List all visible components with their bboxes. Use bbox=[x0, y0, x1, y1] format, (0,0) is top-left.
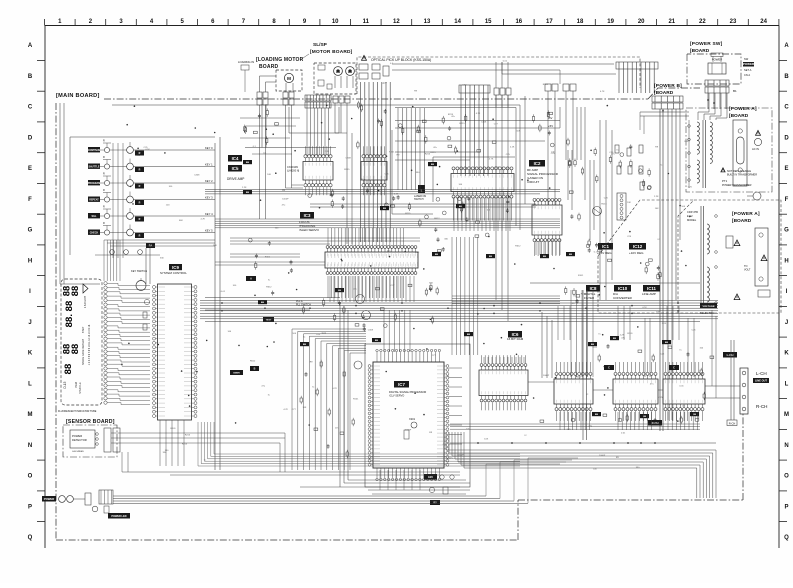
svg-text:R215: R215 bbox=[182, 444, 188, 446]
pickup wire bundle bbox=[361, 82, 391, 242]
svg-text:R-CH: R-CH bbox=[756, 404, 767, 409]
border ruler right bbox=[779, 26, 789, 549]
svg-text:R101: R101 bbox=[578, 275, 584, 277]
svg-text:10K: 10K bbox=[213, 245, 217, 247]
svg-text:R: R bbox=[103, 189, 105, 192]
svg-text:VOLT: VOLT bbox=[744, 269, 751, 272]
svg-text:R612: R612 bbox=[266, 287, 272, 289]
display tube note bbox=[58, 410, 97, 413]
power led label bbox=[108, 513, 130, 519]
svg-text:BB: BB bbox=[303, 344, 307, 346]
svg-text:2.2K: 2.2K bbox=[620, 334, 625, 336]
audio verticals mid bbox=[571, 290, 593, 440]
svg-text:D: D bbox=[28, 135, 33, 141]
IC4 package bbox=[303, 146, 333, 195]
rails -5V +5V bbox=[395, 107, 560, 160]
rf wire bundle bbox=[461, 93, 488, 176]
svg-text:10: 10 bbox=[332, 19, 339, 25]
power sw to transformer wires bbox=[698, 93, 727, 120]
output wires bbox=[528, 310, 740, 398]
sl motor M2 bbox=[334, 67, 343, 88]
svg-text:10K: 10K bbox=[655, 208, 659, 210]
svg-text:BB: BB bbox=[261, 302, 265, 304]
svg-text:BB: BB bbox=[375, 340, 379, 342]
display digits bbox=[61, 284, 92, 394]
laser connector bbox=[616, 62, 658, 69]
svg-text:IC7: IC7 bbox=[398, 382, 405, 387]
svg-text:15: 15 bbox=[485, 19, 492, 25]
svg-text:L-CH: L-CH bbox=[727, 353, 734, 357]
svg-text:SPACE FADE REPEAT: SPACE FADE REPEAT bbox=[82, 339, 85, 365]
svg-text:[BOARD: [BOARD bbox=[729, 113, 749, 119]
svg-text:CONTINUE: CONTINUE bbox=[88, 149, 101, 152]
svg-text:4.7K: 4.7K bbox=[489, 159, 494, 161]
degauss coil bbox=[747, 192, 761, 200]
svg-text:IC2: IC2 bbox=[534, 161, 541, 166]
audio discrete parts bbox=[540, 344, 714, 424]
svg-text:MODEL: MODEL bbox=[687, 218, 697, 222]
svg-text:BB: BB bbox=[383, 208, 387, 210]
svg-text:1000P: 1000P bbox=[457, 455, 464, 457]
svg-text:+10V REG: +10V REG bbox=[629, 251, 644, 255]
svg-text:A: A bbox=[250, 278, 252, 281]
display to mcu wires bbox=[107, 283, 150, 404]
IC7 label bbox=[389, 381, 426, 398]
svg-text:R215: R215 bbox=[405, 213, 411, 215]
svg-text:R215: R215 bbox=[601, 203, 607, 205]
svg-text:IC3: IC3 bbox=[304, 213, 311, 218]
power a board upper label bbox=[729, 106, 757, 119]
svg-text:2.2K: 2.2K bbox=[415, 252, 420, 254]
svg-text:FLUORESCENT INDICATOR TUBE: FLUORESCENT INDICATOR TUBE bbox=[58, 410, 97, 413]
sensor connectors bbox=[104, 428, 285, 472]
svg-text:F: F bbox=[785, 197, 789, 203]
reg resistor stack bbox=[615, 145, 644, 190]
svg-text:PT1: PT1 bbox=[722, 179, 728, 183]
mcu bottom bundle bbox=[160, 420, 184, 466]
key matrix frame bbox=[70, 137, 215, 255]
cn2 long drops bbox=[496, 95, 525, 321]
svg-text:R215: R215 bbox=[430, 152, 436, 154]
reset parts bbox=[143, 299, 150, 330]
svg-text:R: R bbox=[139, 185, 141, 188]
border ruler left bbox=[28, 26, 46, 549]
svg-text:BB: BB bbox=[543, 256, 547, 258]
svg-text:R215: R215 bbox=[459, 123, 465, 125]
svg-text:R: R bbox=[103, 173, 105, 176]
svg-text:4.7K: 4.7K bbox=[332, 388, 337, 390]
wire rails x347 bbox=[347, 133, 352, 244]
svg-text:SL/SP: SL/SP bbox=[313, 42, 328, 48]
dsp left parts bbox=[300, 360, 354, 458]
power a upper dashdot box bbox=[686, 108, 772, 192]
qfp left wire loop bbox=[340, 302, 470, 487]
svg-text:12: 12 bbox=[393, 19, 400, 25]
svg-text:IC9: IC9 bbox=[172, 265, 179, 270]
main digital bus bbox=[200, 303, 718, 313]
reg connector CN bbox=[617, 193, 626, 220]
svg-text:1000P: 1000P bbox=[599, 455, 606, 457]
svg-text:C308: C308 bbox=[194, 174, 200, 176]
power a fuse block bbox=[733, 120, 747, 186]
svg-text:J: J bbox=[28, 320, 31, 326]
power sw board outline bbox=[687, 54, 741, 84]
svg-text:R215: R215 bbox=[344, 169, 350, 171]
svg-text:SHUTTLE: SHUTTLE bbox=[88, 166, 99, 169]
svg-text:2.2K: 2.2K bbox=[394, 194, 399, 196]
power b connector bbox=[652, 96, 683, 109]
ic2 area wire box bbox=[392, 130, 433, 214]
ic8 top drops bbox=[542, 312, 552, 378]
svg-text:R: R bbox=[139, 169, 141, 172]
fluorescent display outline bbox=[61, 279, 102, 405]
sp motor M3 bbox=[346, 67, 355, 88]
bus y283 horizontal bbox=[205, 283, 700, 298]
svg-text:4.7K: 4.7K bbox=[201, 219, 206, 221]
svg-text:POWER: POWER bbox=[743, 62, 755, 66]
loading motor M1 bbox=[284, 73, 293, 92]
svg-text:R612: R612 bbox=[515, 246, 521, 248]
svg-text:SYSTEM CONTROL: SYSTEM CONTROL bbox=[160, 271, 187, 275]
audio bottom bus bbox=[450, 424, 700, 429]
svg-text:SWITCH: SWITCH bbox=[414, 198, 424, 201]
IC2 package bbox=[451, 167, 514, 221]
svg-text:Q: Q bbox=[28, 535, 33, 541]
line out rail pair bbox=[731, 340, 734, 420]
IC9 label bbox=[160, 264, 187, 275]
svg-text:D-15: D-15 bbox=[63, 381, 67, 388]
svg-text:CX20109: CX20109 bbox=[287, 165, 298, 169]
svg-text:PLL SWITCH: PLL SWITCH bbox=[296, 304, 311, 307]
svg-text:R101: R101 bbox=[627, 333, 633, 335]
audio dip bottom drops bbox=[560, 412, 697, 430]
svg-text:10K: 10K bbox=[670, 371, 674, 373]
svg-text:23: 23 bbox=[730, 19, 737, 25]
svg-text:STEP: STEP bbox=[82, 326, 85, 333]
svg-text:[MAIN BOARD]: [MAIN BOARD] bbox=[56, 93, 100, 99]
sl/sp small parts bbox=[318, 65, 332, 89]
svg-text:1000P: 1000P bbox=[282, 199, 289, 201]
power b to transformer horizontals bbox=[640, 112, 689, 134]
ic6 top pads bbox=[484, 357, 524, 363]
svg-text:OPTICAL PICK UP BLOCK (KSS-15: OPTICAL PICK UP BLOCK (KSS-150A) bbox=[371, 58, 431, 62]
power detector bbox=[70, 430, 98, 453]
IC8 package bbox=[554, 362, 593, 421]
main board label bbox=[56, 93, 100, 99]
R-CH label bbox=[756, 404, 767, 409]
svg-text:VOLTAGE: VOLTAGE bbox=[702, 304, 714, 308]
wire rail pair left bbox=[60, 103, 100, 284]
bus y232 to ic3 bbox=[230, 238, 420, 244]
svg-text:IC8: IC8 bbox=[590, 286, 597, 291]
dsp bottom parts bbox=[424, 474, 454, 505]
cdp model note bbox=[687, 210, 699, 222]
svg-text:CONVERTER: CONVERTER bbox=[613, 296, 633, 300]
svg-text:BB: BB bbox=[338, 290, 342, 292]
svg-text:POWER: POWER bbox=[712, 58, 723, 62]
qfp right stubs bbox=[449, 368, 462, 444]
svg-text:LINE OUT: LINE OUT bbox=[755, 379, 768, 383]
long rail y105 bbox=[112, 105, 520, 230]
power b wire bundle bbox=[660, 109, 680, 431]
long rail y107-5 bbox=[395, 108, 516, 227]
IC6 package bbox=[479, 355, 528, 410]
svg-text:POWER LED: POWER LED bbox=[111, 515, 126, 518]
IC10 label bbox=[613, 285, 633, 300]
svg-text:BB: BB bbox=[591, 344, 595, 346]
svg-text:[POWER A]: [POWER A] bbox=[732, 211, 760, 217]
IC7 dsp qfp bbox=[365, 344, 470, 487]
svg-text:BB: BB bbox=[431, 164, 435, 166]
svg-text:BB: BB bbox=[467, 334, 471, 336]
svg-text:FILTER: FILTER bbox=[584, 296, 595, 300]
svg-text:R101: R101 bbox=[389, 152, 395, 154]
svg-text:G: G bbox=[28, 228, 33, 234]
svg-text:B: B bbox=[254, 368, 256, 371]
svg-text:-5V: -5V bbox=[548, 116, 552, 120]
ac inlet bbox=[752, 130, 762, 151]
svg-text:(LA9200 N): (LA9200 N) bbox=[287, 170, 299, 173]
svg-text:2.2K: 2.2K bbox=[242, 187, 247, 189]
svg-text:16 BIT RAM: 16 BIT RAM bbox=[507, 337, 524, 341]
servo dip under verticals bbox=[536, 239, 560, 255]
loading in switch bbox=[238, 60, 254, 92]
svg-text:BOARD: BOARD bbox=[259, 64, 279, 70]
svg-text:R: R bbox=[139, 218, 141, 221]
display connector pins bbox=[104, 282, 107, 405]
svg-text:BB: BB bbox=[643, 416, 647, 418]
pickup actuator coils bbox=[359, 64, 389, 79]
pickup rf connector bbox=[459, 85, 490, 93]
warning triangle pickup bbox=[362, 55, 367, 60]
svg-text:19: 19 bbox=[607, 19, 614, 25]
power transformer PT2 bbox=[701, 206, 717, 308]
svg-text:N: N bbox=[28, 443, 32, 449]
svg-text:56K: 56K bbox=[429, 282, 433, 284]
svg-text:REPEAT: REPEAT bbox=[89, 199, 99, 202]
svg-text:SET A: SET A bbox=[744, 68, 752, 72]
svg-text:LINE AMP: LINE AMP bbox=[642, 292, 656, 296]
svg-text:C308: C308 bbox=[346, 158, 352, 160]
power bus risers bbox=[486, 458, 578, 503]
IC3 lower hatch bbox=[328, 276, 404, 298]
svg-text:KEY SWITCH: KEY SWITCH bbox=[131, 269, 147, 273]
cn601 wire bundle down bbox=[398, 108, 424, 190]
svg-text:C: C bbox=[608, 367, 610, 370]
svg-text:R612: R612 bbox=[250, 361, 256, 363]
svg-text:K: K bbox=[784, 351, 789, 357]
IC3 label bbox=[299, 212, 320, 232]
svg-text:KEY 2: KEY 2 bbox=[205, 179, 213, 183]
svg-text:BB: BB bbox=[569, 254, 573, 256]
svg-text:POWER: POWER bbox=[72, 434, 82, 438]
svg-text:M: M bbox=[28, 412, 33, 418]
svg-text:Q: Q bbox=[784, 535, 789, 541]
bus qfp top verticals bbox=[384, 237, 478, 355]
discrete parts clusters bbox=[244, 101, 662, 332]
sensor board label bbox=[66, 419, 115, 425]
svg-text:2.2K: 2.2K bbox=[662, 323, 667, 325]
IC11 package bbox=[663, 362, 705, 421]
sensor board outline bbox=[63, 425, 117, 457]
power input connector bbox=[92, 490, 113, 513]
svg-text:BB: BB bbox=[435, 254, 439, 256]
IC12 label bbox=[629, 243, 646, 255]
svg-text:4.7K: 4.7K bbox=[145, 149, 150, 151]
svg-text:+5V: +5V bbox=[548, 124, 553, 128]
sl/sp motor board label bbox=[300, 42, 353, 60]
laser on switch label bbox=[414, 185, 426, 201]
svg-text:IC10: IC10 bbox=[618, 286, 628, 291]
power input plug bbox=[42, 493, 91, 505]
svg-text:P: P bbox=[784, 504, 788, 510]
svg-text:/SLED SERVO: /SLED SERVO bbox=[299, 228, 320, 232]
bus staircase to qfp bbox=[292, 329, 366, 470]
svg-text:[BOARD: [BOARD bbox=[732, 218, 752, 224]
svg-text:D: D bbox=[784, 135, 789, 141]
IC3 inner pin text bbox=[328, 254, 417, 266]
svg-text:B: B bbox=[28, 74, 33, 80]
svg-text:R: R bbox=[139, 235, 141, 238]
audio labels bbox=[604, 352, 737, 426]
svg-text:88: 88 bbox=[69, 344, 80, 354]
svg-text:X201: X201 bbox=[409, 417, 416, 421]
svg-text:N: N bbox=[784, 443, 788, 449]
svg-text:SGL: SGL bbox=[92, 215, 97, 218]
svg-text:P: P bbox=[28, 504, 32, 510]
svg-text:R101: R101 bbox=[543, 84, 549, 86]
vco transistors bbox=[354, 295, 371, 370]
svg-text:BB: BB bbox=[693, 414, 697, 416]
svg-text:10K: 10K bbox=[516, 130, 520, 132]
svg-text:C308: C308 bbox=[481, 121, 487, 123]
svg-text:10K: 10K bbox=[316, 334, 320, 336]
audio bus drops bbox=[558, 306, 694, 377]
main board outline bbox=[56, 88, 743, 540]
svg-text:LOADING IN: LOADING IN bbox=[238, 60, 254, 64]
svg-text:1 6-8 EDIT: 1 6-8 EDIT bbox=[84, 295, 87, 308]
svg-text:/CLV SERVO: /CLV SERVO bbox=[389, 394, 404, 398]
transformer notes bbox=[721, 168, 757, 187]
svg-text:24: 24 bbox=[760, 19, 767, 25]
IC2 wire box bbox=[433, 157, 515, 202]
svg-text:[POWER SW]: [POWER SW] bbox=[690, 41, 723, 47]
svg-text:NOT REPLACEABLE: NOT REPLACEABLE bbox=[727, 170, 751, 173]
L-CH label bbox=[753, 371, 769, 383]
svg-text:BB: BB bbox=[246, 162, 250, 164]
bus pll lines bbox=[205, 300, 311, 310]
IC2 label bbox=[527, 160, 559, 184]
svg-text:[LOADING MOTOR: [LOADING MOTOR bbox=[256, 57, 304, 63]
svg-text:[BOARD: [BOARD bbox=[690, 48, 710, 54]
IC5 package bbox=[361, 146, 387, 195]
svg-text:1000P: 1000P bbox=[543, 375, 550, 377]
wire bus y147 bbox=[245, 104, 336, 148]
svg-text:21: 21 bbox=[668, 19, 675, 25]
svg-text:F: F bbox=[28, 197, 32, 203]
svg-text:IC4: IC4 bbox=[232, 156, 239, 161]
svg-text:A: A bbox=[28, 43, 33, 49]
svg-text:C: C bbox=[673, 367, 675, 370]
IC11 label bbox=[642, 285, 660, 296]
bus y204 horizontal bbox=[310, 204, 536, 207]
svg-text:[BOARD: [BOARD bbox=[654, 90, 674, 96]
svg-text:CIRCUIT: CIRCUIT bbox=[527, 180, 539, 184]
svg-text:10K: 10K bbox=[484, 439, 488, 441]
svg-text:CHECK: CHECK bbox=[90, 232, 99, 235]
svg-text:M: M bbox=[287, 76, 291, 81]
ic3 left bus bbox=[215, 254, 325, 265]
bus junction dots bbox=[221, 302, 679, 314]
svg-text:17: 17 bbox=[546, 19, 553, 25]
svg-text:E: E bbox=[784, 166, 788, 172]
reg transistor bbox=[593, 207, 602, 216]
ic2 under verticals bbox=[454, 197, 510, 231]
power sw wires down bbox=[707, 89, 737, 109]
svg-text:L: L bbox=[785, 381, 789, 387]
cn601 to drive amp drops bbox=[307, 108, 329, 156]
power switch S901 bbox=[708, 53, 726, 74]
loading motor board label bbox=[256, 57, 304, 70]
svg-text:R612: R612 bbox=[685, 141, 691, 143]
svg-text:[POWER A]: [POWER A] bbox=[729, 106, 757, 112]
qfp under wires bbox=[368, 470, 470, 494]
power sw side notes bbox=[743, 57, 755, 77]
main bus extra lines bbox=[200, 300, 718, 321]
svg-text:EMER: EMER bbox=[233, 373, 240, 375]
svg-text:K: K bbox=[28, 351, 33, 357]
line out connector bbox=[740, 368, 748, 414]
svg-text:R612: R612 bbox=[576, 377, 582, 379]
svg-text:G.B SPEED: G.B SPEED bbox=[72, 451, 84, 453]
svg-text:DIGITAL SIGNAL PROCESSOR: DIGITAL SIGNAL PROCESSOR bbox=[389, 390, 426, 394]
IC3 upper hatch bbox=[328, 228, 404, 246]
power sw connector bbox=[705, 80, 729, 93]
cx20109 note bbox=[287, 165, 299, 173]
key driver transistors bbox=[88, 137, 220, 470]
svg-text:10K: 10K bbox=[303, 407, 307, 409]
svg-text:IC12: IC12 bbox=[633, 244, 643, 249]
svg-text:O: O bbox=[784, 474, 789, 480]
extra black labels bbox=[243, 160, 699, 418]
svg-text:[POWER B]: [POWER B] bbox=[654, 83, 682, 89]
connector CN2 bbox=[494, 62, 511, 107]
svg-text:BB: BB bbox=[613, 338, 617, 340]
bus dsp bottom stair bbox=[446, 432, 716, 498]
optical pickup block outline bbox=[357, 57, 640, 94]
svg-text:B1: B1 bbox=[733, 89, 737, 93]
svg-text:1 2 3 4 5 6 7 8 9 10 11 12 13: 1 2 3 4 5 6 7 8 9 10 11 12 13 14 15 16 bbox=[88, 324, 91, 365]
svg-text:KEY 5: KEY 5 bbox=[205, 228, 213, 232]
pickup block internal wires bbox=[392, 62, 616, 84]
power sw board label bbox=[690, 41, 723, 54]
svg-text:88. 88: 88. 88 bbox=[64, 300, 75, 327]
IC8 label bbox=[584, 285, 600, 300]
svg-text:AC IN: AC IN bbox=[752, 147, 759, 151]
svg-text:20: 20 bbox=[638, 19, 645, 25]
display top wires bbox=[104, 240, 120, 281]
key switch transistor bbox=[131, 269, 147, 291]
qfp bottom feed bbox=[300, 486, 460, 488]
svg-text:10K: 10K bbox=[267, 174, 271, 176]
svg-text:R: R bbox=[103, 206, 105, 209]
svg-text:10K: 10K bbox=[627, 202, 631, 204]
svg-text:11: 11 bbox=[363, 19, 370, 25]
svg-text:R101: R101 bbox=[265, 257, 271, 259]
connector CN601 bbox=[305, 95, 331, 108]
svg-text:4.7K: 4.7K bbox=[476, 113, 481, 115]
svg-text:2.2K: 2.2K bbox=[325, 151, 330, 153]
